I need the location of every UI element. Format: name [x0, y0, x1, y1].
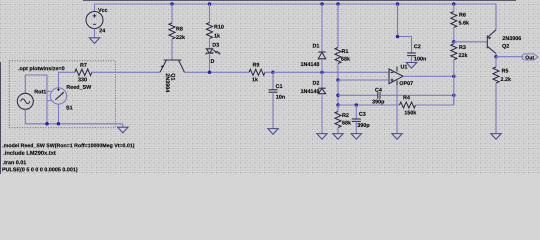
label "330" — [78, 78, 87, 82]
node S1 control- junction — [45, 122, 49, 126]
voltage source Vcc — [86, 12, 103, 38]
wire main horizontal — [185, 71, 250, 73]
label "Q1" — [170, 74, 175, 81]
label "R8" — [176, 27, 182, 31]
label "390p" — [372, 100, 384, 105]
node Y-C4 junction — [336, 94, 340, 98]
transistor Q2 2N3906 — [487, 30, 496, 57]
label "D2" — [313, 81, 319, 85]
diode D2 — [318, 72, 325, 133]
ground — [268, 129, 278, 135]
ground — [392, 134, 402, 140]
label "2N3904" — [166, 74, 170, 93]
label "R7" — [80, 63, 86, 67]
wire to D junction — [273, 71, 389, 73]
label "D3" — [213, 43, 219, 47]
resistor R10 — [207, 4, 213, 49]
ground — [317, 134, 327, 140]
label "S1" — [66, 106, 72, 110]
resistor R3 — [451, 42, 457, 105]
wire bottom — [25, 123, 122, 125]
diode D1 — [318, 4, 325, 72]
box .opt — [9, 61, 115, 128]
resistor R2 — [335, 105, 341, 134]
node clamp — [320, 71, 324, 75]
label "C4" — [375, 88, 382, 92]
node rail-R6 — [452, 2, 456, 6]
resistor R8 — [169, 4, 175, 60]
node S1 bottom junction — [57, 122, 61, 126]
label "R1" — [342, 49, 348, 53]
label "390p" — [357, 123, 369, 128]
label "68k" — [341, 57, 350, 61]
label "R3" — [459, 45, 465, 49]
node rail-R10 — [208, 2, 212, 6]
label "OP07" — [400, 81, 413, 85]
ground — [351, 134, 361, 140]
label ".opt plotwinsize=0" — [18, 66, 64, 71]
voltage source Rot1 — [17, 75, 47, 124]
op-amp U1 OP07 — [338, 67, 403, 86]
resistor R6 — [451, 4, 457, 42]
diode D3 — [206, 49, 221, 73]
node collector — [494, 55, 498, 59]
node rail-U1 — [396, 2, 400, 6]
wire top rail — [95, 4, 497, 30]
label "Vcc" — [98, 8, 107, 12]
node rail-R8 — [170, 2, 174, 6]
window left edge — [0, 62, 2, 174]
wire ground stub — [122, 124, 124, 127]
label "68k" — [342, 121, 351, 125]
resistor R1 — [335, 4, 341, 80]
label "C1" — [276, 84, 283, 88]
node Y-R4 junction — [336, 103, 340, 107]
label ".tran 0.01" — [3, 160, 26, 164]
label "U1" — [401, 65, 408, 69]
label "Reed_SW" — [67, 85, 92, 90]
label "R10" — [214, 25, 223, 29]
wire base — [454, 41, 488, 43]
capacitor C2 — [407, 53, 416, 63]
label "R4" — [403, 96, 410, 100]
label ".include LM290x.txt" — [4, 151, 56, 155]
label "R6" — [459, 13, 465, 17]
capacitor C4 — [338, 92, 454, 99]
label "D" — [211, 59, 214, 63]
resistor R9 — [249, 69, 273, 75]
label "Out" — [525, 56, 534, 60]
node rail-R1 — [336, 2, 340, 6]
ground — [333, 134, 343, 140]
label "Q2" — [502, 44, 509, 49]
wire V+ — [398, 4, 412, 53]
resistor R5 — [493, 57, 499, 134]
label "R9" — [253, 63, 259, 67]
node D3-main wire junction — [208, 71, 212, 75]
label "1k" — [252, 77, 258, 81]
transistor Q1 2N3904 — [160, 60, 185, 72]
switch S1 Reed_SW — [47, 72, 67, 124]
label "C3" — [359, 112, 366, 116]
node rail-D1 — [320, 2, 324, 6]
label "1N4148" — [301, 62, 319, 66]
resistor R4 — [338, 95, 454, 108]
label "5.6k" — [459, 21, 469, 25]
node +in — [336, 78, 340, 82]
ground — [491, 134, 501, 140]
label "24" — [99, 29, 105, 33]
label "R2" — [342, 113, 348, 117]
node C4/R4 right junction — [452, 94, 456, 98]
wire out — [496, 56, 524, 58]
node C3 — [355, 103, 359, 107]
label "10n" — [276, 95, 285, 99]
ground — [406, 63, 416, 69]
port Out — [522, 54, 538, 60]
label "22k" — [176, 35, 185, 39]
wire node Y vertical — [337, 80, 339, 105]
wire output — [403, 75, 454, 77]
window top edge — [83, 0, 516, 2]
label ".model Reed_SW SW(Ron=1 Roff=10000Meg Vt=0.01)" — [3, 143, 135, 148]
label "100n" — [414, 57, 426, 61]
label "1k" — [214, 34, 220, 38]
label "D1" — [313, 44, 319, 48]
label "PULSE(0 5 0 0 0 0.0005 0.001)" — [2, 167, 77, 172]
node base — [452, 40, 456, 44]
resistor R7 — [58, 69, 160, 75]
label "1N4148" — [301, 89, 319, 93]
wire U1 V- to ground — [396, 85, 398, 134]
label "2.2k" — [501, 77, 511, 81]
label "C2" — [414, 44, 421, 48]
label "22k" — [459, 53, 468, 57]
ground — [89, 38, 99, 44]
node R9-C1 — [271, 71, 275, 75]
capacitor C3 — [352, 105, 361, 134]
label "Rot1" — [35, 90, 46, 94]
label "150k" — [405, 111, 417, 115]
ground — [118, 127, 128, 133]
label "R5" — [502, 69, 508, 73]
capacitor C1 — [269, 72, 278, 128]
label "2N3906" — [503, 36, 522, 40]
